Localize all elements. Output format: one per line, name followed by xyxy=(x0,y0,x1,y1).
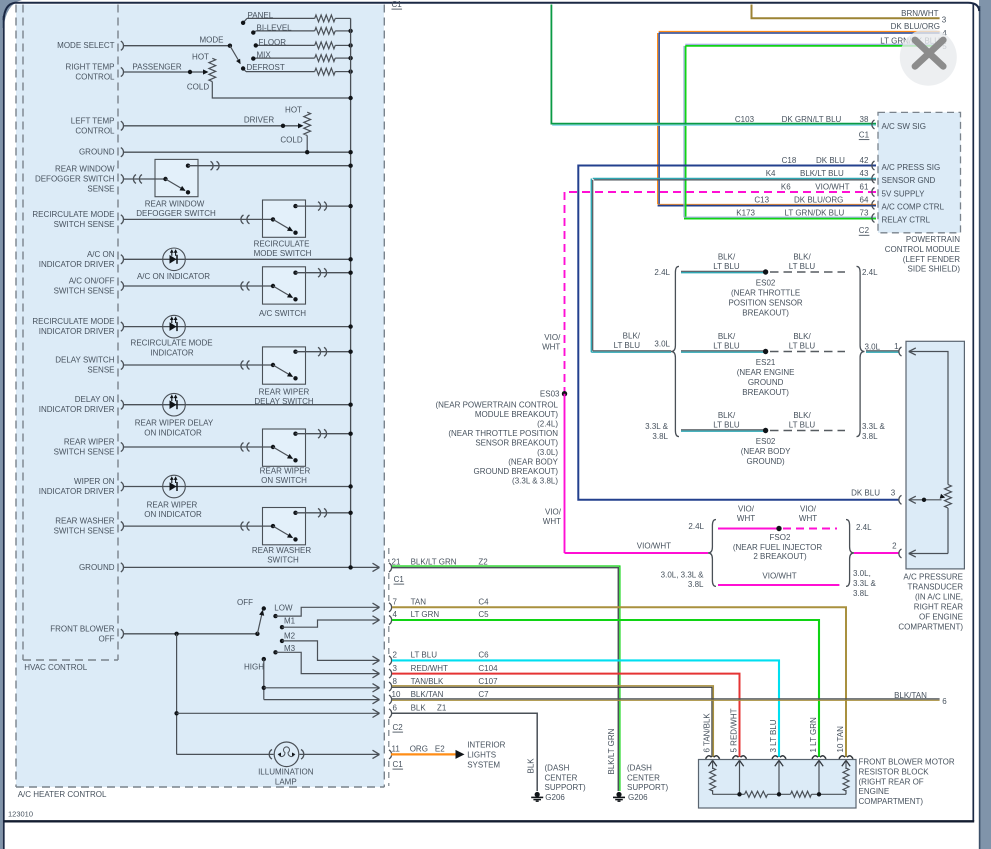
svg-text:A/C PRESSURE: A/C PRESSURE xyxy=(903,572,963,581)
svg-text:73: 73 xyxy=(860,208,869,217)
svg-text:3.0L,: 3.0L, xyxy=(853,569,871,578)
svg-text:REAR WINDOW: REAR WINDOW xyxy=(55,165,115,174)
svg-text:SUPPORT): SUPPORT) xyxy=(545,783,587,792)
svg-text:SENSE: SENSE xyxy=(87,185,114,194)
svg-text:DK BLU/ORG: DK BLU/ORG xyxy=(794,195,843,204)
svg-text:1 LT GRN: 1 LT GRN xyxy=(809,717,818,752)
svg-text:(RIGHT REAR OF: (RIGHT REAR OF xyxy=(859,777,924,786)
svg-text:5 RED/WHT: 5 RED/WHT xyxy=(730,708,739,752)
svg-text:MODULE BREAKOUT): MODULE BREAKOUT) xyxy=(475,410,558,419)
svg-text:C107: C107 xyxy=(478,677,498,686)
svg-text:INDICATOR DRIVER: INDICATOR DRIVER xyxy=(39,260,115,269)
svg-text:REAR WIPER: REAR WIPER xyxy=(260,467,311,476)
svg-text:INDICATOR DRIVER: INDICATOR DRIVER xyxy=(39,327,115,336)
svg-text:4: 4 xyxy=(393,610,398,619)
svg-text:(NEAR THROTTLE POSITION: (NEAR THROTTLE POSITION xyxy=(448,429,558,438)
svg-text:3.0L: 3.0L xyxy=(654,340,670,349)
svg-text:ON SWITCH: ON SWITCH xyxy=(261,476,307,485)
svg-text:3 LT BLU: 3 LT BLU xyxy=(769,719,778,752)
svg-text:LT BLU: LT BLU xyxy=(789,341,816,350)
svg-text:COMPARTMENT): COMPARTMENT) xyxy=(859,797,924,806)
svg-text:3.0L, 3.3L &: 3.0L, 3.3L & xyxy=(661,571,705,580)
svg-text:VIO/: VIO/ xyxy=(545,508,562,517)
svg-text:HOT: HOT xyxy=(285,106,302,115)
svg-text:REAR WIPER: REAR WIPER xyxy=(259,388,310,397)
svg-text:POWERTRAIN: POWERTRAIN xyxy=(906,235,960,244)
svg-text:(DASH: (DASH xyxy=(545,764,570,773)
svg-text:M2: M2 xyxy=(284,632,296,641)
svg-text:38: 38 xyxy=(860,115,869,124)
svg-text:WHT: WHT xyxy=(542,343,560,352)
svg-text:POSITION SENSOR: POSITION SENSOR xyxy=(728,299,802,308)
svg-text:WHT: WHT xyxy=(737,514,755,523)
svg-text:BLK/: BLK/ xyxy=(793,253,811,262)
svg-text:SWITCH: SWITCH xyxy=(267,556,299,565)
svg-text:CENTER: CENTER xyxy=(627,774,660,783)
svg-text:ON INDICATOR: ON INDICATOR xyxy=(144,429,202,438)
svg-text:BLK/LT GRN: BLK/LT GRN xyxy=(411,558,457,567)
svg-text:BLK/: BLK/ xyxy=(718,253,736,262)
svg-text:3.8L: 3.8L xyxy=(862,432,878,441)
svg-text:3.3L &: 3.3L & xyxy=(645,422,668,431)
svg-text:COLD: COLD xyxy=(187,83,209,92)
svg-text:Z2: Z2 xyxy=(478,558,488,567)
svg-text:ES02: ES02 xyxy=(756,279,776,288)
svg-text:RECIRCULATE: RECIRCULATE xyxy=(254,240,310,249)
svg-text:BRN/WHT: BRN/WHT xyxy=(901,9,938,18)
svg-text:SWITCH SENSE: SWITCH SENSE xyxy=(54,527,115,536)
svg-text:VIO/: VIO/ xyxy=(544,333,561,342)
svg-text:C2: C2 xyxy=(393,723,404,732)
svg-text:SWITCH SENSE: SWITCH SENSE xyxy=(54,287,115,296)
svg-text:2: 2 xyxy=(892,542,897,551)
svg-text:(3.0L): (3.0L) xyxy=(537,448,558,457)
svg-text:HOT: HOT xyxy=(192,53,209,62)
svg-text:CENTER: CENTER xyxy=(545,774,578,783)
svg-text:SIDE SHIELD): SIDE SHIELD) xyxy=(908,265,961,274)
svg-text:OFF: OFF xyxy=(99,634,115,643)
svg-text:RECIRCULATE MODE: RECIRCULATE MODE xyxy=(32,317,114,326)
svg-text:VIO/: VIO/ xyxy=(738,505,755,514)
svg-text:1: 1 xyxy=(894,342,899,351)
svg-text:RECIRCULATE MODE: RECIRCULATE MODE xyxy=(131,339,213,348)
svg-text:ON INDICATOR: ON INDICATOR xyxy=(144,510,202,519)
svg-text:G206: G206 xyxy=(628,793,648,802)
svg-text:3.3L &: 3.3L & xyxy=(862,422,885,431)
svg-text:CONTROL: CONTROL xyxy=(75,73,115,82)
svg-text:RED/WHT: RED/WHT xyxy=(411,664,448,673)
svg-text:BLK/: BLK/ xyxy=(718,411,736,420)
svg-text:LT BLU: LT BLU xyxy=(713,262,740,271)
svg-text:2.4L: 2.4L xyxy=(856,523,872,532)
svg-text:123010: 123010 xyxy=(8,810,33,819)
svg-text:FSO2: FSO2 xyxy=(770,533,791,542)
svg-text:DEFROST: DEFROST xyxy=(247,63,285,72)
svg-text:C1: C1 xyxy=(859,131,870,140)
svg-text:BLK/: BLK/ xyxy=(623,332,641,341)
svg-text:SWITCH SENSE: SWITCH SENSE xyxy=(54,448,115,457)
svg-text:GROUND): GROUND) xyxy=(746,457,785,466)
svg-text:REAR WINDOW: REAR WINDOW xyxy=(145,200,205,209)
svg-text:C103: C103 xyxy=(735,115,755,124)
svg-text:LT BLU: LT BLU xyxy=(789,420,816,429)
svg-text:SYSTEM: SYSTEM xyxy=(467,761,500,770)
svg-text:C7: C7 xyxy=(478,690,489,699)
svg-text:6: 6 xyxy=(942,697,947,706)
svg-text:GROUND: GROUND xyxy=(79,563,115,572)
svg-text:BREAKOUT): BREAKOUT) xyxy=(742,388,789,397)
svg-text:3.3L &: 3.3L & xyxy=(853,579,876,588)
svg-text:WIPER ON: WIPER ON xyxy=(74,477,115,486)
svg-text:3.8L: 3.8L xyxy=(688,580,704,589)
svg-text:3.8L: 3.8L xyxy=(652,432,668,441)
svg-text:RESISTOR BLOCK: RESISTOR BLOCK xyxy=(859,767,930,776)
svg-text:RECIRCULATE MODE: RECIRCULATE MODE xyxy=(32,210,114,219)
svg-text:A/C COMP CTRL: A/C COMP CTRL xyxy=(882,202,945,211)
svg-text:TAN: TAN xyxy=(411,598,427,607)
svg-text:A/C ON/OFF: A/C ON/OFF xyxy=(69,277,115,286)
svg-text:RELAY CTRL: RELAY CTRL xyxy=(882,215,931,224)
svg-text:ILLUMINATION: ILLUMINATION xyxy=(258,768,314,777)
svg-text:8: 8 xyxy=(393,677,398,686)
svg-text:11: 11 xyxy=(392,745,401,754)
svg-text:43: 43 xyxy=(860,169,869,178)
svg-text:CONTROL: CONTROL xyxy=(75,126,115,135)
svg-text:INDICATOR: INDICATOR xyxy=(150,349,193,358)
svg-text:BREAKOUT): BREAKOUT) xyxy=(742,309,789,318)
svg-text:K173: K173 xyxy=(736,208,755,217)
svg-text:REAR WIPER: REAR WIPER xyxy=(147,501,198,510)
svg-text:WHT: WHT xyxy=(799,514,817,523)
svg-text:BLK/TAN: BLK/TAN xyxy=(411,690,444,699)
svg-text:DELAY ON: DELAY ON xyxy=(75,395,115,404)
svg-text:ORG: ORG xyxy=(410,745,428,754)
svg-text:VIO/WHT: VIO/WHT xyxy=(815,183,849,192)
svg-text:INDICATOR DRIVER: INDICATOR DRIVER xyxy=(39,405,115,414)
svg-text:SUPPORT): SUPPORT) xyxy=(627,783,669,792)
svg-text:SENSE: SENSE xyxy=(87,366,114,375)
svg-text:64: 64 xyxy=(860,195,869,204)
svg-text:A/C HEATER CONTROL: A/C HEATER CONTROL xyxy=(18,790,107,799)
svg-text:HIGH: HIGH xyxy=(244,663,264,672)
svg-text:DK BLU: DK BLU xyxy=(851,489,880,498)
svg-text:C4: C4 xyxy=(478,598,489,607)
svg-text:INDICATOR DRIVER: INDICATOR DRIVER xyxy=(39,487,115,496)
svg-text:Z1: Z1 xyxy=(437,704,447,713)
svg-text:REAR WASHER: REAR WASHER xyxy=(252,546,311,555)
svg-text:ES03: ES03 xyxy=(540,390,560,399)
svg-text:A/C ON: A/C ON xyxy=(87,250,115,259)
svg-text:6: 6 xyxy=(393,704,398,713)
svg-text:3: 3 xyxy=(942,16,947,25)
svg-text:FRONT BLOWER: FRONT BLOWER xyxy=(50,624,115,633)
svg-text:BLK/LT BLU: BLK/LT BLU xyxy=(800,169,844,178)
svg-text:VIO/: VIO/ xyxy=(800,505,817,514)
svg-text:BLK: BLK xyxy=(411,704,427,713)
svg-text:GROUND: GROUND xyxy=(748,378,784,387)
svg-text:SENSOR BREAKOUT): SENSOR BREAKOUT) xyxy=(475,439,558,448)
svg-text:E2: E2 xyxy=(435,745,445,754)
svg-text:2.4L: 2.4L xyxy=(688,522,704,531)
svg-text:LT GRN/DK BLU: LT GRN/DK BLU xyxy=(785,208,845,217)
svg-text:3.0L: 3.0L xyxy=(865,342,881,351)
svg-text:REAR WASHER: REAR WASHER xyxy=(55,517,114,526)
svg-text:OFF: OFF xyxy=(237,598,253,607)
svg-text:A/C SW SIG: A/C SW SIG xyxy=(882,122,926,131)
svg-text:LT BLU: LT BLU xyxy=(713,420,740,429)
svg-text:A/C SWITCH: A/C SWITCH xyxy=(259,309,306,318)
svg-text:MODE: MODE xyxy=(200,36,224,45)
svg-text:BLK/: BLK/ xyxy=(793,332,811,341)
svg-text:VIO/WHT: VIO/WHT xyxy=(762,571,796,580)
svg-text:M3: M3 xyxy=(284,644,296,653)
svg-text:DK BLU: DK BLU xyxy=(816,156,845,165)
svg-text:6 TAN/BLK: 6 TAN/BLK xyxy=(703,713,712,753)
svg-text:C18: C18 xyxy=(782,156,797,165)
svg-text:(NEAR POWERTRAIN CONTROL: (NEAR POWERTRAIN CONTROL xyxy=(435,401,558,410)
svg-text:LT BLU: LT BLU xyxy=(614,341,641,350)
svg-text:HVAC CONTROL: HVAC CONTROL xyxy=(24,663,88,672)
svg-text:(DASH: (DASH xyxy=(627,764,652,773)
svg-text:REAR WIPER: REAR WIPER xyxy=(64,438,115,447)
svg-text:MODE SWITCH: MODE SWITCH xyxy=(254,249,312,258)
svg-text:BLK/: BLK/ xyxy=(718,332,736,341)
svg-text:BLK: BLK xyxy=(527,758,536,774)
svg-text:(NEAR BODY: (NEAR BODY xyxy=(741,447,791,456)
svg-text:SENSOR GND: SENSOR GND xyxy=(882,176,936,185)
svg-text:5V SUPPLY: 5V SUPPLY xyxy=(882,190,926,199)
svg-text:WHT: WHT xyxy=(543,517,561,526)
svg-text:C6: C6 xyxy=(478,651,489,660)
svg-text:BLK/LT GRN: BLK/LT GRN xyxy=(607,728,616,774)
svg-text:RIGHT REAR: RIGHT REAR xyxy=(914,602,963,611)
svg-text:FRONT BLOWER MOTOR: FRONT BLOWER MOTOR xyxy=(859,758,955,767)
svg-text:ENGINE: ENGINE xyxy=(859,787,890,796)
svg-text:7: 7 xyxy=(393,598,398,607)
svg-text:A/C PRESS SIG: A/C PRESS SIG xyxy=(882,163,941,172)
svg-text:10: 10 xyxy=(392,690,401,699)
svg-text:A/C ON INDICATOR: A/C ON INDICATOR xyxy=(137,272,210,281)
svg-text:DELAY SWITCH: DELAY SWITCH xyxy=(55,356,114,365)
svg-text:(3.3L & 3.8L): (3.3L & 3.8L) xyxy=(512,477,558,486)
svg-text:C1: C1 xyxy=(393,760,404,769)
svg-text:61: 61 xyxy=(860,183,869,192)
svg-text:(NEAR FUEL INJECTOR: (NEAR FUEL INJECTOR xyxy=(733,543,823,552)
svg-text:2 BREAKOUT): 2 BREAKOUT) xyxy=(753,552,807,561)
svg-text:LT BLU: LT BLU xyxy=(713,341,740,350)
svg-text:INTERIOR: INTERIOR xyxy=(467,741,505,750)
svg-text:G206: G206 xyxy=(545,793,565,802)
svg-text:2.4L: 2.4L xyxy=(862,268,878,277)
svg-text:GROUND BREAKOUT): GROUND BREAKOUT) xyxy=(474,467,559,476)
svg-text:ES02: ES02 xyxy=(756,437,776,446)
svg-text:DK GRN/LT BLU: DK GRN/LT BLU xyxy=(782,115,842,124)
svg-text:10 TAN: 10 TAN xyxy=(836,726,845,753)
svg-text:DEFOGGER SWITCH: DEFOGGER SWITCH xyxy=(136,209,216,218)
svg-text:(IN A/C LINE,: (IN A/C LINE, xyxy=(915,592,963,601)
svg-text:C104: C104 xyxy=(478,664,498,673)
svg-text:LEFT TEMP: LEFT TEMP xyxy=(71,116,115,125)
svg-text:VIO/WHT: VIO/WHT xyxy=(637,541,671,550)
svg-text:C2: C2 xyxy=(859,226,870,235)
svg-text:(NEAR THROTTLE: (NEAR THROTTLE xyxy=(731,289,800,298)
svg-text:(2.4L): (2.4L) xyxy=(537,420,558,429)
svg-text:3: 3 xyxy=(393,664,398,673)
svg-text:2: 2 xyxy=(393,651,398,660)
svg-text:RIGHT TEMP: RIGHT TEMP xyxy=(65,63,114,72)
svg-text:3: 3 xyxy=(891,489,896,498)
svg-text:C13: C13 xyxy=(754,195,769,204)
svg-text:(LEFT FENDER: (LEFT FENDER xyxy=(903,255,960,264)
svg-text:CONTROL MODULE: CONTROL MODULE xyxy=(885,245,960,254)
svg-text:GROUND: GROUND xyxy=(79,148,115,157)
svg-text:BLK/TAN: BLK/TAN xyxy=(894,691,927,700)
svg-text:C5: C5 xyxy=(478,610,489,619)
svg-text:LT BLU: LT BLU xyxy=(789,262,816,271)
svg-text:LIGHTS: LIGHTS xyxy=(467,751,496,760)
svg-text:2.4L: 2.4L xyxy=(654,268,670,277)
svg-text:COLD: COLD xyxy=(280,136,302,145)
svg-text:K6: K6 xyxy=(781,183,791,192)
svg-text:C1: C1 xyxy=(392,0,403,9)
svg-text:SWITCH SENSE: SWITCH SENSE xyxy=(54,220,115,229)
svg-text:(NEAR BODY: (NEAR BODY xyxy=(508,458,558,467)
svg-text:M1: M1 xyxy=(284,617,296,626)
svg-text:COMPARTMENT): COMPARTMENT) xyxy=(898,623,963,632)
svg-text:MODE SELECT: MODE SELECT xyxy=(57,41,114,50)
svg-text:LT GRN: LT GRN xyxy=(411,610,440,619)
svg-text:REAR WIPER DELAY: REAR WIPER DELAY xyxy=(135,419,214,428)
svg-text:PASSENGER: PASSENGER xyxy=(132,62,181,71)
svg-text:DRIVER: DRIVER xyxy=(244,116,274,125)
svg-text:(NEAR ENGINE: (NEAR ENGINE xyxy=(737,368,795,377)
svg-text:K4: K4 xyxy=(766,169,776,178)
svg-text:BLK/: BLK/ xyxy=(793,411,811,420)
svg-text:LOW: LOW xyxy=(274,604,293,613)
svg-text:LAMP: LAMP xyxy=(275,778,297,787)
svg-text:3.8L: 3.8L xyxy=(853,589,869,598)
svg-text:C1: C1 xyxy=(394,575,405,584)
svg-text:ES21: ES21 xyxy=(756,358,776,367)
svg-text:TRANSDUCER: TRANSDUCER xyxy=(907,582,963,591)
svg-text:OF ENGINE: OF ENGINE xyxy=(919,613,963,622)
svg-text:TAN/BLK: TAN/BLK xyxy=(411,677,444,686)
svg-text:LT BLU: LT BLU xyxy=(411,651,438,660)
svg-text:42: 42 xyxy=(860,156,869,165)
svg-text:DEFOGGER SWITCH: DEFOGGER SWITCH xyxy=(35,175,115,184)
svg-text:21: 21 xyxy=(392,558,401,567)
